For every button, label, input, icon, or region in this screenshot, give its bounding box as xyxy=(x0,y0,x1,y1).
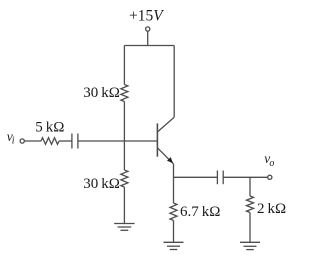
label 6.7 kOhm xyxy=(180,204,220,220)
wire left vertical upper xyxy=(123,46,125,85)
resistor R2 30k lower zigzag xyxy=(121,170,128,187)
wire left vertical middle xyxy=(123,102,125,171)
svg-text:2 kΩ: 2 kΩ xyxy=(257,201,286,217)
ground G2 xyxy=(240,242,260,249)
input terminal circle xyxy=(20,139,24,143)
wire left vertical lower xyxy=(123,187,125,223)
wire input to resistor xyxy=(25,140,42,142)
transistor Q1 base bar xyxy=(156,123,158,156)
output terminal circle xyxy=(268,175,272,179)
wire 6.7k to ground xyxy=(173,221,175,243)
ground G1 xyxy=(114,224,134,231)
wire supply stub xyxy=(147,31,149,45)
wire 2k to ground xyxy=(249,213,251,243)
supply terminal circle xyxy=(146,27,150,31)
wire emitter vertical xyxy=(173,164,175,203)
svg-text:30 kΩ: 30 kΩ xyxy=(83,85,120,101)
label vi xyxy=(7,129,15,147)
svg-text:30 kΩ: 30 kΩ xyxy=(83,176,120,192)
wire collector vertical xyxy=(173,46,175,118)
resistor R1 30k upper zigzag xyxy=(121,85,128,102)
wire resistor to capacitor C1 xyxy=(59,140,72,142)
svg-text:+15V: +15V xyxy=(129,8,164,25)
svg-text:o: o xyxy=(269,158,274,169)
resistor R3 6.7k zigzag xyxy=(170,203,177,221)
label 30 kOhm lower xyxy=(83,176,120,192)
resistor R4 2k zigzag xyxy=(247,196,254,213)
svg-text:i: i xyxy=(12,135,15,146)
transistor Q1 emitter diagonal xyxy=(157,148,173,164)
capacitor C2 plate left xyxy=(216,171,218,185)
resistor R5 5k zigzag xyxy=(41,138,59,145)
transistor Q1 emitter arrow xyxy=(167,157,173,163)
label vo xyxy=(264,151,274,169)
capacitor C1 plate left xyxy=(71,134,73,149)
transistor Q1 collector diagonal xyxy=(157,117,174,132)
wire emitter to capacitor C2 xyxy=(174,176,218,178)
label +15V xyxy=(129,8,164,25)
svg-text:5 kΩ: 5 kΩ xyxy=(35,119,64,135)
wire base xyxy=(78,140,157,142)
label 5 kOhm xyxy=(35,119,64,135)
wire capacitor to output xyxy=(223,176,267,178)
svg-text:6.7 kΩ: 6.7 kΩ xyxy=(180,204,220,220)
wire 2k top xyxy=(249,177,251,196)
label 2 kOhm xyxy=(257,201,286,217)
wire top rail xyxy=(124,45,174,47)
ground G3 xyxy=(164,242,184,249)
label 30 kOhm upper xyxy=(83,85,120,101)
capacitor C1 plate right xyxy=(77,134,79,149)
capacitor C2 plate right xyxy=(222,171,224,185)
